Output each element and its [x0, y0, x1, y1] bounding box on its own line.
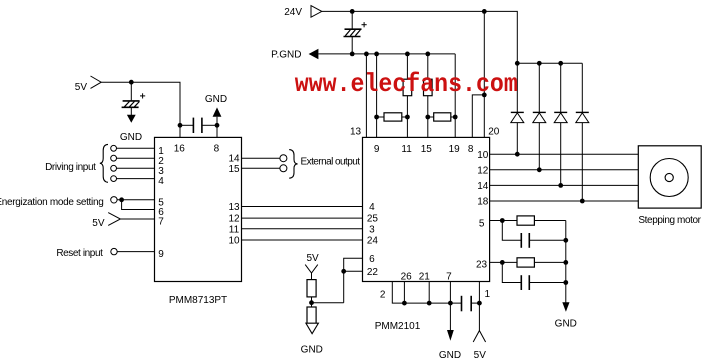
resistor R3 (horizontal, pin9-pin11) — [377, 113, 408, 121]
resistor R4 (horizontal, pin15-pin19) — [428, 113, 455, 121]
input terminal circle pin2 — [111, 155, 117, 161]
wire to pin 9 — [117, 251, 154, 253]
svg-text:2: 2 — [380, 290, 386, 301]
ground arrow (divider) — [301, 323, 323, 355]
svg-text:PMM8713PT: PMM8713PT — [169, 295, 227, 306]
svg-text:PMM2101: PMM2101 — [375, 321, 421, 332]
junction D2/phase12 — [537, 167, 542, 172]
svg-text:20: 20 — [488, 127, 500, 138]
wire U1 pin12 to U2 pin25 — [242, 217, 363, 219]
junction pin5 node — [500, 218, 505, 223]
svg-text:External output: External output — [301, 156, 361, 167]
resistor R2 (vertical, to pin 15) — [424, 54, 433, 137]
wire pin 14 to external output — [242, 157, 280, 159]
junction pin22 — [341, 269, 346, 274]
capacitor C3 (between pins 16 and 8) — [180, 118, 217, 133]
capacitor C6 (pin 23 damper) — [502, 262, 566, 290]
junction D1/phase10 — [515, 152, 520, 157]
wire 24V to pin 20 — [483, 11, 485, 137]
wire phase 12 — [490, 169, 639, 171]
wire pin 23 — [490, 261, 517, 263]
wire U1 pin11 to U2 pin3 — [242, 228, 363, 230]
junction R8/GND rail — [563, 260, 568, 265]
junction P.GND/pin13 — [364, 52, 369, 57]
svg-text:18: 18 — [477, 197, 489, 208]
junction pin16/C3 — [178, 123, 183, 128]
junction pin8 branch — [482, 93, 487, 98]
svg-text:11: 11 — [401, 144, 412, 155]
svg-text:13: 13 — [228, 202, 240, 213]
wire P.GND to pin 9 — [376, 54, 378, 137]
svg-text:13: 13 — [350, 127, 362, 138]
GND terminal (pin 8 of U1) — [205, 94, 227, 138]
wire U2 pin21 drop — [428, 282, 430, 304]
svg-text:9: 9 — [158, 249, 164, 260]
svg-text:www.elecfans.com: www.elecfans.com — [295, 69, 518, 99]
5V supply terminal (pin 1) — [473, 331, 486, 361]
resistor R6 (divider lower) — [307, 303, 316, 324]
ground arrow (C2) — [120, 107, 142, 143]
stepping motor M1 — [638, 146, 701, 226]
svg-text:P.GND: P.GND — [271, 50, 301, 61]
svg-text:11: 11 — [229, 224, 240, 235]
svg-text:Energization mode setting: Energization mode setting — [0, 197, 104, 208]
svg-text:Stepping motor: Stepping motor — [638, 215, 701, 226]
wire U2 pin1 drop — [478, 282, 480, 331]
junction D4/phase18 — [580, 199, 585, 204]
wire to pin 3 — [117, 167, 155, 169]
ground arrow (logic GND) — [439, 303, 461, 361]
wire pin 15 to external output — [242, 167, 280, 169]
svg-text:GND: GND — [439, 350, 461, 361]
junction D3/phase14 — [558, 183, 563, 188]
5V supply terminal (top left) — [75, 76, 101, 93]
node pin19/R4 — [453, 115, 458, 120]
wire U2 pin26 drop — [403, 282, 405, 304]
svg-text:24: 24 — [367, 236, 379, 247]
junction 5V/C2 — [129, 80, 134, 85]
junction divider node — [309, 300, 314, 305]
junction pin21/bus — [427, 301, 432, 306]
wire P.GND bus — [318, 53, 455, 55]
junction bus/D3 — [558, 61, 563, 66]
24V supply terminal — [284, 6, 322, 18]
wire to pin 6 — [122, 200, 155, 210]
svg-text:16: 16 — [174, 144, 186, 155]
svg-text:7: 7 — [158, 217, 164, 228]
wire U1 pin13 to U2 pin4 — [242, 206, 363, 208]
wire phase 18 — [490, 200, 639, 202]
junction pin26/bus — [402, 301, 407, 306]
svg-text:7: 7 — [446, 271, 452, 282]
resistor R7 (pin 5 damper) — [517, 216, 566, 225]
diode D3 (flyback, phase 14) — [554, 63, 567, 185]
junction pin8/C3 — [215, 123, 220, 128]
wire U2 pin7 drop — [449, 282, 451, 304]
node pin15/R4 — [425, 115, 430, 120]
svg-text:23: 23 — [476, 259, 488, 270]
output terminal circle pin15 — [280, 165, 287, 172]
svg-text:24V: 24V — [284, 7, 302, 18]
capacitor C5 (pin 5 damper) — [502, 221, 566, 248]
svg-text:14: 14 — [477, 181, 489, 192]
svg-text:5: 5 — [479, 218, 485, 229]
junction pin23 node — [500, 260, 505, 265]
5V supply terminal (pin 7) — [92, 213, 120, 229]
svg-text:Driving input: Driving input — [45, 162, 96, 173]
svg-text:Reset input: Reset input — [56, 248, 103, 259]
junction C5/GND rail — [563, 238, 568, 243]
output terminal circle pin14 — [280, 155, 287, 162]
junction 24V/pin20 — [482, 9, 487, 14]
wire U2 pin22 — [344, 270, 363, 272]
wire to pin 2 — [117, 157, 155, 159]
wire pin 5 — [490, 220, 517, 222]
junction P.GND/pin9 — [374, 52, 379, 57]
junction pin7/bus — [448, 301, 453, 306]
diode D2 (flyback, phase 12) — [533, 63, 546, 170]
junction pin1/C4 — [477, 301, 482, 306]
svg-text:5V: 5V — [75, 82, 88, 93]
svg-text:10: 10 — [477, 150, 489, 161]
svg-text:9: 9 — [374, 144, 380, 155]
junction pin5/pin6 — [119, 197, 124, 202]
wire to pin 7 — [120, 218, 154, 220]
wire U1 pin10 to U2 pin24 — [242, 239, 363, 241]
svg-text:12: 12 — [477, 165, 489, 176]
wire U2 pin2 drop — [392, 282, 461, 304]
diode D4 (flyback, phase 18) — [576, 63, 589, 201]
svg-text:4: 4 — [369, 202, 375, 213]
svg-text:5V: 5V — [92, 218, 105, 229]
resistor R1 (vertical, to pin 11) — [403, 54, 412, 137]
junction P.GND/C1 — [350, 52, 355, 57]
svg-text:25: 25 — [367, 214, 379, 225]
junction P.GND/R2 — [425, 52, 430, 57]
junction P.GND/R1 — [405, 52, 410, 57]
svg-text:8: 8 — [214, 144, 220, 155]
input terminal circle pin5 — [111, 197, 117, 203]
brace driving input — [100, 144, 108, 182]
capacitor C4 (pin1 decoupling) — [462, 296, 480, 312]
svg-text:19: 19 — [449, 144, 461, 155]
wire diode cathode bus — [517, 62, 582, 64]
node pin11/R3 — [405, 115, 410, 120]
P.GND terminal — [271, 49, 318, 61]
svg-text:GND: GND — [555, 319, 577, 330]
svg-text:8: 8 — [468, 144, 474, 155]
5V supply terminal (divider) — [305, 253, 319, 273]
svg-text:4: 4 — [158, 176, 164, 187]
node pin9/R3 — [374, 115, 379, 120]
wire branch to pin 8 — [472, 95, 484, 137]
brace external output — [289, 150, 297, 179]
diode D1 (flyback, phase 10) — [511, 63, 524, 154]
wire phase 14 — [490, 184, 639, 186]
junction bus/D2 — [537, 61, 542, 66]
svg-text:5V: 5V — [306, 253, 319, 264]
junction C6/GND rail — [563, 280, 568, 285]
svg-text:10: 10 — [228, 236, 240, 247]
resistor R8 (pin 23 damper) — [517, 258, 566, 267]
svg-text:12: 12 — [228, 214, 240, 225]
wire RC ground rail — [565, 221, 567, 303]
wire to pin 4 — [117, 178, 155, 180]
input terminal circle pin1 — [111, 145, 117, 151]
input terminal circle pin4 — [111, 176, 117, 182]
ground arrow (RC networks) — [555, 302, 577, 329]
resistor R5 (divider upper) — [307, 273, 316, 303]
input terminal circle pin9 — [111, 248, 117, 254]
input terminal circle pin3 — [111, 165, 117, 171]
svg-text:1: 1 — [485, 289, 491, 300]
svg-text:GND: GND — [120, 132, 142, 143]
svg-text:26: 26 — [401, 271, 413, 282]
wire to pin 5 — [117, 199, 154, 201]
wire 5V rail — [101, 82, 180, 137]
wire 24V bus — [322, 11, 518, 63]
svg-text:GND: GND — [205, 94, 227, 105]
svg-text:21: 21 — [419, 271, 431, 282]
wire P.GND to pin 13 — [365, 54, 367, 137]
svg-text:6: 6 — [369, 254, 375, 265]
svg-text:5V: 5V — [474, 350, 487, 361]
wire P.GND to pin 19 — [454, 54, 456, 137]
wire phase 10 — [490, 153, 639, 155]
capacitor C2 (5V bulk, polarized) — [122, 82, 146, 107]
IC U1 PMM8713PT — [155, 137, 242, 281]
svg-text:GND: GND — [301, 345, 323, 356]
junction bus/D1 — [515, 61, 520, 66]
capacitor C1 (24V bulk, polarized) — [344, 11, 367, 54]
IC U2 PMM2101 — [363, 137, 490, 281]
wire divider node to pin6/22 — [312, 302, 344, 304]
svg-text:15: 15 — [421, 144, 433, 155]
svg-text:15: 15 — [228, 164, 240, 175]
wire U2 pin6 — [344, 258, 363, 303]
junction 24V/C1 — [350, 9, 355, 14]
wire to pin 1 — [117, 147, 155, 149]
svg-text:3: 3 — [369, 224, 375, 235]
svg-text:22: 22 — [367, 267, 379, 278]
